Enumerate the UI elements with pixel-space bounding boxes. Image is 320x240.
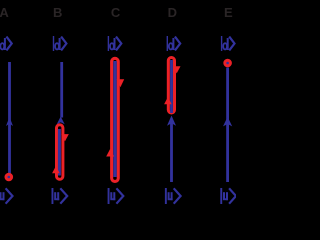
svg-text:A: A	[0, 5, 9, 20]
svg-text:B: B	[53, 5, 62, 20]
svg-text:D: D	[168, 5, 177, 20]
svg-text:C: C	[111, 5, 121, 20]
svg-text:E: E	[224, 5, 233, 20]
